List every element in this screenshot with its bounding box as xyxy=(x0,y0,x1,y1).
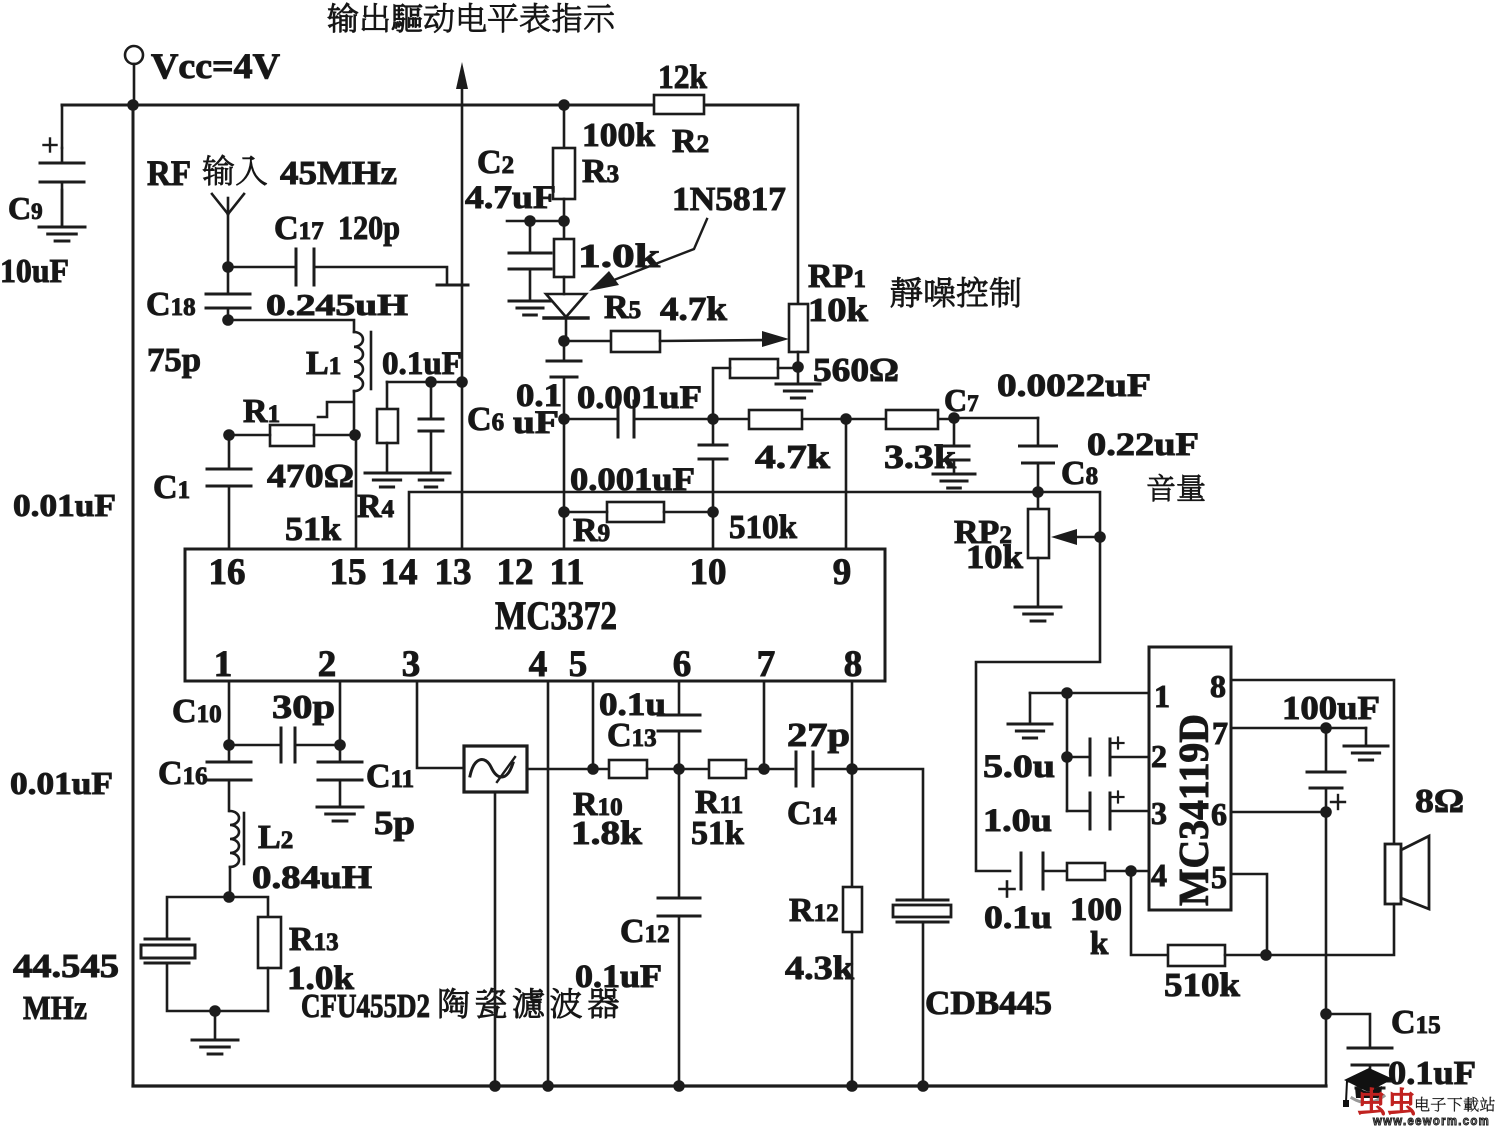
ground U2 pin1 xyxy=(1008,724,1052,738)
svg-text:51k: 51k xyxy=(285,511,341,548)
resistor R5 4.7k xyxy=(611,331,660,352)
label 560 ohm xyxy=(813,352,899,389)
U2 pin 8 label xyxy=(1210,668,1226,704)
wire 560 right xyxy=(778,367,798,370)
capacitor C9 xyxy=(40,139,84,183)
svg-text:Vcc=4V: Vcc=4V xyxy=(151,46,280,86)
label 1.8k xyxy=(571,815,642,852)
label L1 xyxy=(306,345,341,382)
pin 6 label bottom xyxy=(673,644,692,685)
wire pin2 column xyxy=(334,681,346,751)
ground U2 pin7 xyxy=(1344,746,1388,760)
svg-text:1: 1 xyxy=(1154,678,1170,714)
label output drive level meter xyxy=(328,3,614,33)
resistor 1.0k vertical xyxy=(554,239,574,277)
wire pin1 ground stem xyxy=(1029,693,1032,724)
label 44.545 xyxy=(13,948,119,985)
svg-text:MHz: MHz xyxy=(23,990,87,1027)
svg-text:10k: 10k xyxy=(966,539,1023,576)
label squelch control xyxy=(891,277,1020,307)
label 12k xyxy=(658,59,707,96)
resistor R13 1.0k xyxy=(258,917,281,968)
svg-text:2: 2 xyxy=(1151,738,1167,774)
wire R1 right xyxy=(314,434,355,437)
node pin4 junction xyxy=(1125,865,1137,877)
wire speaker bottom xyxy=(1266,904,1394,955)
svg-text:9: 9 xyxy=(833,552,852,593)
label MC3372 xyxy=(495,593,617,638)
resistor 510k feedback xyxy=(1168,945,1225,966)
wire R10-R11 xyxy=(647,763,709,775)
svg-text:560Ω: 560Ω xyxy=(813,352,899,389)
pin 10 label xyxy=(690,552,727,593)
node C15 junction xyxy=(1320,1008,1332,1020)
label 8 ohm xyxy=(1415,783,1464,820)
ground crystal xyxy=(192,1040,238,1054)
label R5 4.7k xyxy=(604,289,727,328)
label RP2 10k xyxy=(966,539,1023,576)
node signal junction b xyxy=(707,413,719,425)
label C2 xyxy=(477,144,514,181)
label 100uF xyxy=(1282,690,1380,727)
label CDB445 xyxy=(925,985,1052,1022)
label R13 1.0k xyxy=(287,960,354,997)
svg-text:7: 7 xyxy=(757,644,776,685)
label R11 xyxy=(695,784,743,821)
svg-text:4.7k: 4.7k xyxy=(660,291,727,328)
label MC34119D xyxy=(1172,714,1218,906)
capacitor 1.0u xyxy=(1067,792,1149,830)
pin 8 label bottom xyxy=(844,644,863,685)
wire C1 top xyxy=(228,435,231,469)
label 30p xyxy=(272,689,335,726)
svg-text:CFU455D2: CFU455D2 xyxy=(301,988,430,1025)
label 5p xyxy=(374,805,415,842)
label RF input 45MHz xyxy=(147,153,397,193)
pin 12 label xyxy=(497,552,534,593)
label C15 xyxy=(1391,1004,1441,1041)
wire pin4 column xyxy=(542,681,554,1092)
label 4.7k series xyxy=(755,439,830,476)
svg-text:100uF: 100uF xyxy=(1282,690,1380,727)
label L2 xyxy=(258,819,293,856)
label 51k upper xyxy=(285,511,341,548)
ground C11 xyxy=(317,807,363,821)
label 100k input xyxy=(1070,892,1122,962)
label 5.0u xyxy=(983,749,1055,785)
label C12 0.1uF xyxy=(575,959,662,995)
svg-text:0.84uH: 0.84uH xyxy=(252,860,372,896)
label R13 xyxy=(289,921,339,958)
label 0.1u input xyxy=(984,900,1052,936)
ground RP2 xyxy=(1015,607,1061,621)
U2 pin 6 label xyxy=(1211,796,1227,832)
node crystal gnd junction xyxy=(209,1005,221,1040)
capacitor C11 5p xyxy=(318,745,362,807)
node R1 left junction xyxy=(223,429,235,441)
wire RP2 bottom xyxy=(1037,558,1040,607)
capacitor C12 0.1uF xyxy=(658,769,700,1092)
svg-text:1.0u: 1.0u xyxy=(983,803,1052,839)
wire pin7 column xyxy=(763,681,766,769)
label 1.0u xyxy=(983,803,1052,839)
svg-text:44.545: 44.545 xyxy=(13,948,119,985)
label 10uF xyxy=(0,253,69,290)
pin 5 label bottom xyxy=(569,644,588,685)
svg-text:30p: 30p xyxy=(272,689,335,726)
svg-text:4.7k: 4.7k xyxy=(755,439,830,476)
label C7 xyxy=(944,382,979,418)
ground C9 xyxy=(39,227,85,241)
svg-text:45MHz: 45MHz xyxy=(280,155,397,192)
label 0.0022uF xyxy=(997,368,1151,404)
capacitor C2 4.7uF xyxy=(509,221,551,301)
speaker 8 ohm xyxy=(1385,836,1429,909)
resistor 4.7k series xyxy=(749,410,802,429)
U2 pin 1 label xyxy=(1154,678,1170,714)
capacitor C10 30p xyxy=(229,728,340,762)
potentiometer RP1 10k xyxy=(789,304,808,352)
svg-text:11: 11 xyxy=(550,552,585,593)
label 0.01uF upper xyxy=(13,487,116,523)
wire L1 top xyxy=(228,320,354,332)
svg-text:k: k xyxy=(1090,926,1109,962)
label 510k feedback xyxy=(1164,967,1240,1004)
svg-text:1.8k: 1.8k xyxy=(571,815,642,852)
label 0.01uF lower xyxy=(10,765,113,801)
node Vcc junction xyxy=(127,99,139,111)
svg-text:8: 8 xyxy=(844,644,863,685)
ground R4b xyxy=(365,473,409,487)
svg-text:4.7uF: 4.7uF xyxy=(465,180,556,216)
label MHz xyxy=(23,990,87,1027)
crystal 44.545MHz xyxy=(141,939,195,963)
svg-text:6: 6 xyxy=(673,644,692,685)
svg-text:8: 8 xyxy=(1210,668,1226,704)
ground C7 xyxy=(933,474,975,488)
svg-text:27p: 27p xyxy=(787,717,850,754)
U2 pin 2 label xyxy=(1151,738,1167,774)
svg-text:100: 100 xyxy=(1070,892,1122,928)
wire C17 right xyxy=(314,267,468,285)
label C14 xyxy=(787,795,837,832)
capacitor 0.001uF series xyxy=(618,401,634,437)
label R4 xyxy=(357,488,395,525)
pin 2 label bottom xyxy=(318,644,337,685)
svg-text:0.1uF: 0.1uF xyxy=(575,959,662,995)
label C13 xyxy=(607,717,657,754)
wire diode bottom xyxy=(565,318,568,341)
ground 0.1uF bypass xyxy=(412,473,450,487)
IC U1 MC3372 xyxy=(185,549,885,681)
label 1N5817 xyxy=(672,181,786,218)
label 4.3k xyxy=(785,950,854,987)
svg-text:0.22uF: 0.22uF xyxy=(1087,427,1199,463)
svg-text:120p: 120p xyxy=(338,210,400,247)
label C15 0.1uF xyxy=(1388,1055,1476,1092)
resistor R10 1.8k xyxy=(609,760,647,778)
label 470 ohm xyxy=(267,458,354,495)
label 0.22uF xyxy=(1087,427,1199,463)
svg-text:1: 1 xyxy=(214,644,233,685)
svg-text:uF: uF xyxy=(513,405,559,441)
label CFU455D2 xyxy=(301,988,618,1025)
node bypass junction xyxy=(425,376,437,388)
wire R4 pin15 xyxy=(355,435,358,549)
capacitor C8 0.22uF xyxy=(1020,418,1057,509)
resistor 3.3k xyxy=(886,410,938,429)
svg-text:16: 16 xyxy=(209,552,246,593)
pin 16 label xyxy=(209,552,246,593)
svg-text:www.eeworm.com: www.eeworm.com xyxy=(1372,1113,1490,1128)
wire C9 stem xyxy=(61,148,64,227)
antenna RF input xyxy=(212,194,244,267)
Vcc terminal xyxy=(125,46,143,105)
wire top supply bus xyxy=(62,104,798,107)
label C17 120p xyxy=(274,210,400,247)
wire L1 bottom xyxy=(353,391,356,435)
label R1 xyxy=(243,393,280,430)
label 0.84uH xyxy=(252,860,372,896)
capacitor 0.1uF bypass xyxy=(419,382,443,473)
svg-text:7: 7 xyxy=(1212,715,1228,751)
pin 4 label bottom xyxy=(529,644,548,685)
svg-text:0.1uF: 0.1uF xyxy=(1388,1055,1476,1092)
wire RP1 bottom xyxy=(792,352,804,384)
wire cap feed column xyxy=(1066,693,1069,811)
svg-text:12k: 12k xyxy=(658,59,707,96)
node C18 junction xyxy=(222,314,234,326)
label C6 xyxy=(467,401,504,438)
svg-text:0.001uF: 0.001uF xyxy=(577,380,702,416)
node signal junction a xyxy=(558,413,570,425)
label R2 xyxy=(672,123,709,160)
wire pin7 ground xyxy=(1365,728,1368,746)
label RP1 10k xyxy=(808,292,868,329)
node C7 junction xyxy=(948,412,960,424)
wire 0.1uF bypass xyxy=(387,381,462,384)
label 3.3k xyxy=(884,439,956,476)
label 4.7uF xyxy=(465,180,556,216)
watermark chongchong xyxy=(1359,1088,1414,1114)
svg-text:0.1uF: 0.1uF xyxy=(382,346,462,382)
svg-text:4.3k: 4.3k xyxy=(785,950,854,987)
label C1 xyxy=(153,469,190,506)
label 510k xyxy=(729,509,797,546)
resistor 100k input xyxy=(1043,863,1149,880)
label C16 xyxy=(158,755,208,792)
wire R13 bottom xyxy=(267,968,270,1011)
label volume xyxy=(1148,474,1205,501)
wire C9 branch xyxy=(61,105,64,227)
wire R5 left xyxy=(564,340,611,343)
wiper arrow RP1 xyxy=(762,331,789,347)
node R3 top junction xyxy=(558,99,570,111)
svg-text:75p: 75p xyxy=(147,342,201,379)
pin 14 label xyxy=(381,552,418,593)
inductor L2 0.84uH xyxy=(230,811,244,867)
wire pin8 column xyxy=(851,681,854,769)
wire C1 to pin16 xyxy=(228,486,231,549)
svg-text:0.01uF: 0.01uF xyxy=(13,487,116,523)
capacitor 0.1u input xyxy=(1000,853,1044,897)
resistor 560 ohm xyxy=(730,359,778,378)
capacitor C1 0.01uF xyxy=(207,469,251,486)
wire R9 left xyxy=(558,419,607,549)
svg-text:0.1u: 0.1u xyxy=(984,900,1052,936)
svg-text:5.0u: 5.0u xyxy=(983,749,1055,785)
svg-text:100k: 100k xyxy=(582,117,655,154)
node R5 junction xyxy=(558,335,570,347)
resistor R11 51k xyxy=(709,760,746,778)
svg-text:6: 6 xyxy=(1211,796,1227,832)
svg-text:2: 2 xyxy=(318,644,337,685)
node antenna junction xyxy=(222,261,234,273)
label 27p xyxy=(787,717,850,754)
inductor L1 0.245uH xyxy=(354,332,371,391)
svg-text:4: 4 xyxy=(1151,857,1167,893)
label C18 xyxy=(146,286,196,323)
capacitor 5.0u xyxy=(1061,738,1149,776)
capacitor C16 xyxy=(207,745,251,811)
label C11 xyxy=(366,758,414,795)
ground C15 xyxy=(1348,1065,1392,1094)
wire 560 left xyxy=(713,368,730,419)
meter arrow xyxy=(456,62,468,549)
label C12 xyxy=(620,913,670,950)
svg-text:8Ω: 8Ω xyxy=(1415,783,1464,820)
resistor R9 510k xyxy=(607,502,664,522)
label C6 0.1 xyxy=(516,378,562,414)
svg-text:0.0022uF: 0.0022uF xyxy=(997,368,1151,404)
svg-text:5: 5 xyxy=(1211,859,1227,895)
capacitor 0.001uF shunt xyxy=(699,419,727,549)
svg-text:10uF: 10uF xyxy=(0,253,69,290)
svg-text:510k: 510k xyxy=(1164,967,1240,1004)
capacitor C13 0.1u xyxy=(658,681,700,769)
label RP2 xyxy=(954,514,1012,551)
wire pin3 column xyxy=(417,681,464,768)
svg-text:MC3372: MC3372 xyxy=(495,593,617,638)
svg-text:1.0k: 1.0k xyxy=(578,238,660,275)
svg-text:510k: 510k xyxy=(729,509,797,546)
capacitor C7 0.0022uF xyxy=(939,418,969,474)
label 0.1uF bypass xyxy=(382,346,462,382)
pin 15 label xyxy=(330,552,367,593)
wire U2 pin7 xyxy=(1231,722,1366,734)
wire filter ground xyxy=(489,792,501,1092)
node L1 R1 junction xyxy=(349,429,361,441)
node signal junction c xyxy=(840,413,852,425)
resistor R12 4.3k xyxy=(843,769,862,1092)
wire R5 right xyxy=(660,340,766,341)
svg-text:51k: 51k xyxy=(691,815,744,852)
wire U2 pin8 xyxy=(1231,680,1394,844)
label C6 uF xyxy=(513,405,559,441)
label R9 xyxy=(573,512,610,549)
label 0.001uF upper xyxy=(577,380,702,416)
pin 11 label xyxy=(550,552,585,593)
wire pin9 xyxy=(845,419,848,549)
svg-text:15: 15 xyxy=(330,552,367,593)
resonator CDB445 xyxy=(893,900,951,922)
resistor R2 12k xyxy=(654,95,704,114)
wire R3 top xyxy=(563,105,566,148)
pin 9 label xyxy=(833,552,852,593)
wire signal row xyxy=(564,418,1038,419)
label C9 xyxy=(8,190,43,226)
svg-text:470Ω: 470Ω xyxy=(267,458,354,495)
wire filter output xyxy=(527,768,609,771)
svg-text:0.245uH: 0.245uH xyxy=(266,287,408,322)
capacitor C15 0.1uF xyxy=(1326,1014,1392,1065)
wire left supply rail xyxy=(132,105,135,1086)
resistor R1 470 xyxy=(270,425,314,446)
label 100k xyxy=(582,117,655,154)
U2 pin 7 label xyxy=(1212,715,1228,751)
wiper arrow RP2 xyxy=(1051,529,1106,545)
node C8 wire junction xyxy=(1032,486,1044,498)
svg-text:0.01uF: 0.01uF xyxy=(10,765,113,801)
wire L2 bottom xyxy=(223,867,235,903)
svg-text:RF: RF xyxy=(147,153,191,193)
resistor R4b vertical xyxy=(377,382,398,473)
wire R11-C14 xyxy=(746,763,793,775)
wire RP1 top xyxy=(797,105,800,304)
svg-text:4: 4 xyxy=(529,644,548,685)
svg-text:CDB445: CDB445 xyxy=(925,985,1052,1022)
U2 pin 5 label xyxy=(1211,859,1227,895)
svg-text:12: 12 xyxy=(497,552,534,593)
label R3 xyxy=(582,153,619,190)
label C8 xyxy=(1061,455,1098,492)
pin 3 label bottom xyxy=(402,644,421,685)
svg-text:1N5817: 1N5817 xyxy=(672,181,786,218)
label 0.245uH xyxy=(266,287,408,322)
1N5817 pointer arrow xyxy=(589,219,707,291)
label 51k xyxy=(691,815,744,852)
wire U2 pin5 xyxy=(1231,874,1267,955)
wire CDB445 bottom xyxy=(917,922,929,1092)
label 1.0k xyxy=(578,238,660,275)
IC U2 MC34119D xyxy=(1149,647,1231,910)
wire R3 bottom xyxy=(563,199,566,239)
wire pin14 audio xyxy=(409,492,1100,871)
node arrow junction xyxy=(456,376,468,388)
label RP1 xyxy=(808,258,866,295)
wire R1 left xyxy=(229,434,270,437)
svg-text:3: 3 xyxy=(1151,795,1167,831)
wire C17 left xyxy=(228,266,296,269)
svg-text:5p: 5p xyxy=(374,805,415,842)
label R10 xyxy=(573,786,623,823)
capacitor C17 120p xyxy=(296,249,314,285)
wire CDB445 top xyxy=(852,769,923,900)
wire R9 right xyxy=(664,506,719,518)
watermark site name xyxy=(1416,1097,1495,1112)
wire pin1 column xyxy=(223,681,235,751)
wire feedback xyxy=(1131,871,1168,955)
watermark url xyxy=(1372,1113,1490,1128)
wire pin5 column xyxy=(587,681,599,775)
label Vcc=4V xyxy=(151,46,280,86)
capacitor C6 0.1uF xyxy=(547,341,581,419)
pin 7 label bottom xyxy=(757,644,776,685)
label 75p xyxy=(147,342,201,379)
wire C18 stem xyxy=(227,267,230,320)
wire feedback right xyxy=(1225,949,1272,961)
node C2 wire junction xyxy=(507,215,570,227)
